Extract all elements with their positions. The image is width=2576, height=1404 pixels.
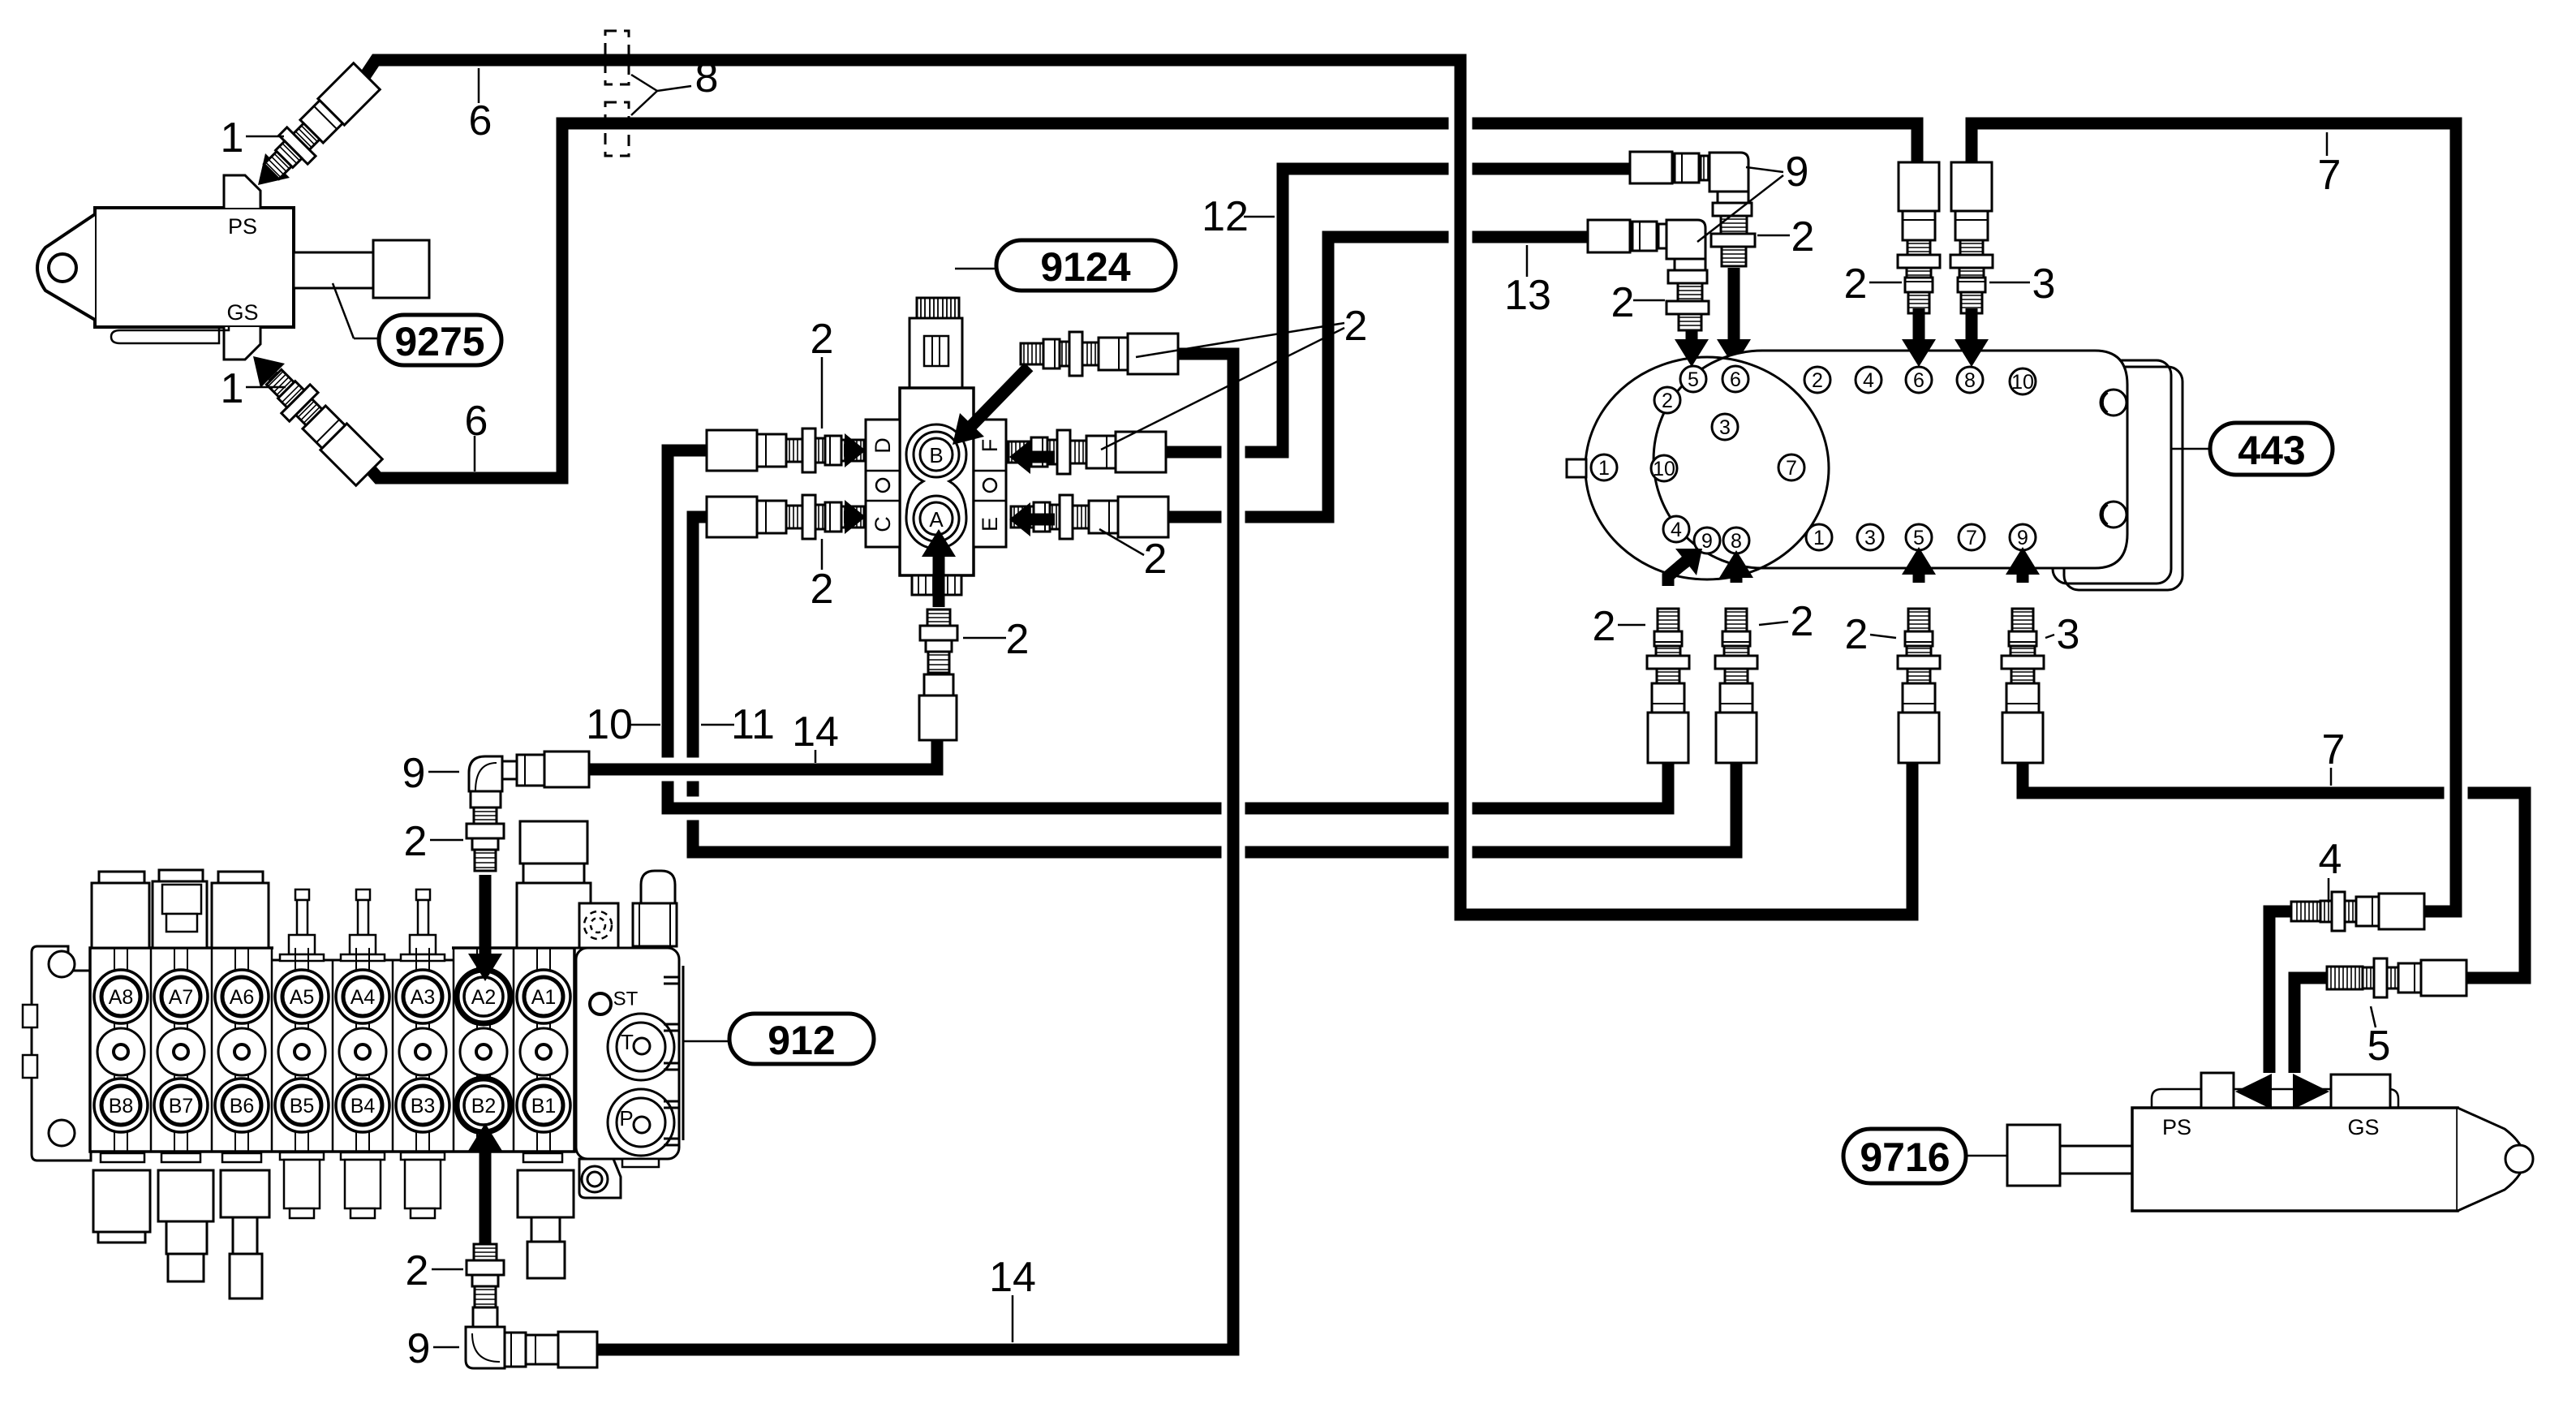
cylinder 9716 GS port block [2331,1075,2390,1108]
port A7 [154,970,208,1023]
svg-text:12: 12 [1202,193,1249,240]
svg-text:2: 2 [1791,213,1815,261]
svg-text:2: 2 [1844,261,1868,308]
label 2 (A2) [430,839,463,842]
svg-text:2: 2 [1662,390,1673,412]
elbow 9 (hose 13 end) [1588,220,1630,252]
fitting 2 (port C chain) [707,495,864,539]
cylinder 9275 PS port [224,175,260,208]
fitting 2 (port D chain) [707,429,864,472]
svg-text:3: 3 [2032,261,2056,308]
svg-text:13: 13 [1504,272,1551,319]
svg-text:9: 9 [1701,530,1713,553]
svg-text:2: 2 [1006,616,1030,663]
label 9 (B2 elbow) leader [433,1346,459,1349]
port A6 [215,970,269,1023]
443 body top port numbers [1804,367,1830,393]
svg-text:4: 4 [1863,369,1874,392]
valve 9124 solenoid body [910,318,962,388]
bulkhead pass-through 8 (lower) [605,102,629,156]
svg-text:2: 2 [406,1247,429,1294]
svg-text:B7: B7 [169,1095,194,1118]
label 4 leader [2328,878,2330,902]
rotary union 443 body [1654,351,2127,568]
port A2 [457,970,510,1023]
svg-text:1: 1 [221,114,244,162]
svg-text:A3: A3 [411,986,436,1009]
label 5 leader [2371,1006,2376,1027]
svg-text:1: 1 [221,365,244,412]
label 2 (ports B and F) [1136,323,1344,357]
fitting 2 (443 port 5 bottom) [1898,609,1940,763]
svg-text:9: 9 [2017,527,2028,549]
port B3 [396,1079,449,1132]
svg-text:2: 2 [1593,603,1616,650]
cylinder 9275 GS port [224,327,260,360]
label 2 (port E) [1099,529,1144,555]
label 9 (elbows) [1746,167,1783,172]
label 2 (B2) leader [432,1268,463,1271]
svg-text:F: F [978,439,1002,453]
cylinder 9716 body [2132,1108,2458,1211]
svg-text:B: B [929,443,943,467]
cylinder 9275 clevis [37,214,95,320]
fitting 1 lower (9275 GS) [273,376,312,416]
fitting 3 (443 port 9 bottom right) [2002,609,2044,763]
port B5 [275,1079,329,1132]
svg-text:ST: ST [613,988,639,1010]
svg-text:6: 6 [469,97,492,144]
svg-text:3: 3 [2057,611,2080,658]
hose 6 lower (cylinder 9275 GS to 443 port 6 top) [366,123,1917,478]
bulkhead pass-through 8 (upper) [605,31,629,84]
svg-text:3: 3 [1719,416,1731,439]
svg-text:A5: A5 [290,986,315,1009]
svg-text:A4: A4 [350,986,376,1009]
svg-text:10: 10 [1653,458,1675,480]
label 3 (top fitting) [1989,282,2030,284]
hose 6 upper (cylinder 9275 PS to 443 port 5 bottom) [363,60,1912,915]
912 relief valve [641,871,675,903]
svg-text:A7: A7 [169,986,194,1009]
svg-text:2: 2 [1344,303,1368,350]
svg-text:8: 8 [695,54,719,101]
callout 443 [2171,448,2210,450]
arrow into port 8 top [1966,308,1978,339]
arrow into port A2 [480,875,492,954]
label 2 (443 bottom right) [1870,635,1896,638]
label 11 leader [701,724,734,726]
svg-text:4: 4 [2319,836,2342,883]
port A4 [336,970,389,1023]
fitting 3 (443 port 8 top) [1950,162,1993,313]
valve 9124 port A [914,496,959,541]
port B7 [154,1079,208,1132]
svg-text:D: D [871,437,895,454]
port B1 [517,1079,570,1132]
label 2 (elbow 13 fitting) [1633,299,1665,302]
fitting 2 (A chain top, under elbow) [474,808,497,824]
svg-text:A8: A8 [109,986,134,1009]
svg-text:9: 9 [1786,149,1809,196]
svg-text:GS: GS [226,300,258,325]
fitting 2 (443 port 6 top) [1898,162,1940,313]
cylinder 9716 tube outline [2152,1089,2398,1108]
svg-text:6: 6 [1730,368,1741,391]
svg-text:A1: A1 [531,986,557,1009]
label 13 leader [1526,245,1529,277]
arrow into port 6 top [1913,308,1925,339]
svg-text:5: 5 [2367,1023,2391,1070]
svg-text:2: 2 [1611,279,1635,326]
svg-text:A6: A6 [230,986,255,1009]
svg-text:B4: B4 [350,1095,376,1118]
svg-text:4: 4 [1671,519,1682,541]
rotary union 443 disc [1585,357,1829,579]
hose 13 (valve 9124 port E to elbow at 443 port 5) [1168,237,1590,517]
arrow into 9716 GS [2293,1074,2329,1109]
svg-text:9: 9 [402,750,426,797]
svg-text:B3: B3 [411,1095,436,1118]
label 14 upper leader [815,750,817,763]
912 body band [90,948,574,1152]
912 P port [608,1089,674,1156]
svg-text:3: 3 [1864,527,1876,549]
hose 10 (valve 9124 port D to swivel 443 port 9 bottom) [668,450,1668,808]
hose 7 upper (443 port 8 top to fitting 4 / 9716 PS) [1972,123,2456,911]
svg-text:9: 9 [407,1325,431,1372]
fitting 4 [2291,892,2424,931]
label 7 bottom leader [2330,768,2333,786]
svg-text:8: 8 [1731,530,1742,553]
svg-text:2: 2 [1144,536,1168,583]
svg-text:6: 6 [465,398,488,445]
svg-text:11: 11 [731,701,775,748]
flange bolt holes [2101,390,2127,416]
label 2 (port D) [821,357,824,429]
port A8 [94,970,148,1023]
svg-text:A: A [929,507,944,532]
fitting 2 below port B2 [474,1244,497,1260]
hose 14 upper (elbow 9 to valve 9124 port A) [589,739,937,769]
svg-text:1: 1 [1813,527,1825,549]
hose 11 (valve 9124 port C to swivel 443 port 8 bottom) [693,517,1736,852]
hose 7 lower (443 port 9 bottom right to fitting 5 / 9716 GS) [2023,761,2525,978]
svg-text:C: C [871,516,895,532]
cylinder 9716 rod [2060,1145,2132,1148]
label 7 top leader [2326,132,2329,156]
label 2 (443 bottom mid-left) [1759,622,1788,625]
callout 9716 [1966,1155,2007,1157]
label 1 (lower) leader [246,386,286,389]
label 3 (443 bottom right) [2045,635,2054,638]
valve 9124 left wing [866,420,900,547]
svg-text:443: 443 [2238,428,2305,473]
cylinder 9716 PS port block [2201,1073,2234,1108]
svg-text:B5: B5 [290,1095,315,1118]
svg-text:912: 912 [768,1018,835,1063]
valve 9124 solenoid hatch [917,298,959,318]
svg-text:E: E [978,517,1002,532]
label 2 (elbow 12 fitting) [1757,235,1790,237]
svg-text:14: 14 [792,708,839,756]
arrow into 443 port 6 [1728,268,1740,339]
912 T port [608,1014,674,1080]
svg-text:2: 2 [1812,369,1823,392]
svg-text:2: 2 [404,818,428,865]
912 section caps (top) [99,872,144,883]
svg-text:2: 2 [811,566,834,613]
fitting 5 [2327,958,2466,997]
cylinder 9716 clevis [2458,1108,2525,1211]
label 1 (upper) leader [246,136,284,138]
svg-text:T: T [621,1030,634,1054]
fitting 2 (port A chain) + arrow into A [933,557,945,607]
svg-text:5: 5 [1913,527,1924,549]
label 2 (443 bottom left) [1618,624,1645,627]
valve 9124 peanut outline [906,424,966,549]
svg-text:2: 2 [811,316,834,363]
valve 9124 port B [914,432,959,477]
label 8 leader [631,75,657,91]
fitting 1 upper (9275 PS) [277,125,318,166]
rotary union 443 flange plate [2053,360,2171,584]
label 12 leader [1244,216,1275,218]
912 foot bracket [579,1159,621,1198]
svg-text:7: 7 [1966,527,1977,549]
svg-text:9716: 9716 [1860,1135,1950,1180]
port B8 [94,1079,148,1132]
valve 9124 right wing [974,420,1006,547]
svg-text:10: 10 [586,701,633,748]
svg-text:PS: PS [2162,1115,2191,1139]
svg-text:10: 10 [2011,371,2034,394]
912 section caps (bottom) [101,1153,144,1162]
port B4 [336,1079,389,1132]
port A5 [275,970,329,1023]
label 14 lower leader [1012,1295,1014,1342]
label 2 (port C) [821,539,824,570]
label 2 (port A) [963,637,1006,640]
svg-text:14: 14 [989,1254,1036,1301]
label 10 leader [630,724,660,726]
svg-text:B2: B2 [471,1095,497,1118]
callout 9275 [333,283,354,338]
svg-text:7: 7 [2322,726,2346,773]
svg-text:6: 6 [1913,369,1924,392]
svg-text:A2: A2 [471,986,497,1009]
port A1 [517,970,570,1023]
hose 14 lower (elbow 9 at 912 B2 to valve 9124 port B) [589,354,1233,1350]
svg-text:2: 2 [1791,598,1814,645]
svg-text:5: 5 [1688,368,1699,391]
port A3 [396,970,449,1023]
svg-text:B6: B6 [230,1095,255,1118]
fitting 2 (443 port 9 bottom) [1647,609,1689,763]
label 6 (upper) leader [478,68,480,103]
svg-text:9275: 9275 [394,319,484,364]
callout 9124 [955,268,996,270]
svg-text:1: 1 [1598,457,1610,480]
callout 912 [683,1040,729,1043]
arrow into port B2 [480,1151,492,1244]
cylinder 9275 rod [294,252,373,288]
443 disc port numbers [1680,366,1706,392]
fitting 2 (port B chain) + arrow into B [972,367,1029,425]
443 body bottom port numbers [1806,524,1832,550]
cylinder 9275 body [95,208,294,327]
fitting 2 (443 port 8 bottom) [1715,609,1757,763]
912 aux block [579,903,618,948]
svg-text:B8: B8 [109,1095,134,1118]
svg-text:8: 8 [1964,369,1976,392]
arrow into 443 port 5 [1686,330,1698,339]
label 2 (top fitting) [1869,282,1902,284]
valve 9124 bottom flange [912,575,961,595]
svg-text:9124: 9124 [1040,244,1130,290]
label 6 (lower) leader [474,436,476,472]
elbow 9 (hose 14 upper) [469,756,502,791]
svg-text:P: P [619,1106,633,1131]
arrow into 9716 PS [2235,1074,2272,1109]
rotary union 443 stub [1567,459,1586,477]
hose 12 (valve 9124 port F to elbow at 443 port 6) [1166,169,1632,452]
cylinder 9275 drain tube [111,327,229,343]
svg-text:PS: PS [228,214,257,239]
port B6 [215,1079,269,1132]
fitting 2 (port E chain) + arrow into E [1011,495,1168,539]
valve 9124 body [900,388,974,575]
svg-text:7: 7 [2318,152,2342,199]
svg-text:B1: B1 [531,1095,557,1118]
elbow 9 (hose 12 end) [1630,152,1672,183]
912 mounting bracket [32,946,91,1161]
912 end block [576,948,679,1159]
elbow 9 below port B2 [473,1307,497,1327]
svg-text:GS: GS [2347,1115,2379,1139]
port B2 [457,1079,510,1132]
svg-text:7: 7 [1786,457,1797,480]
fitting 2 (port F chain) + arrow into F [1008,430,1166,474]
912 ST port [590,993,611,1014]
label 9 (upper elbow) leader [428,771,459,773]
svg-text:2: 2 [1845,611,1869,658]
